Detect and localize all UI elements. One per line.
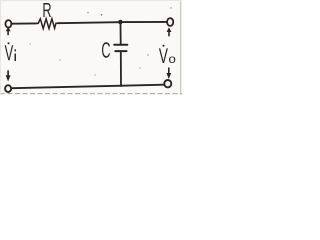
label C	[102, 42, 110, 58]
wire: junction node to output terminal	[123, 21, 168, 23]
input terminal top (open circle)	[5, 20, 11, 27]
output terminal top (open circle)	[167, 18, 173, 26]
Vi voltage arrow lower (head down)	[6, 70, 11, 81]
resistor R1 zigzag	[37, 19, 58, 29]
input terminal bottom (open circle)	[5, 85, 11, 92]
label Vi	[5, 42, 16, 61]
Vo voltage arrow upper (head up)	[167, 27, 172, 36]
wire: top-left terminal to resistor	[12, 22, 37, 24]
node junction dot	[118, 20, 123, 25]
capacitor C1 top plate	[114, 44, 127, 46]
wire: bottom rail	[11, 85, 164, 89]
scan speckles	[29, 7, 171, 75]
paper background	[0, 0, 182, 95]
capacitor C1 bottom lead	[120, 52, 122, 86]
Vi voltage arrow upper (head up)	[6, 27, 11, 35]
Vo voltage arrow lower (head down)	[166, 68, 171, 80]
label R	[43, 3, 51, 17]
capacitor C1 bottom plate	[115, 50, 126, 52]
label Vo	[159, 45, 175, 63]
output terminal bottom (open circle)	[164, 80, 171, 87]
wire: resistor to junction node	[58, 22, 119, 23]
capacitor C1 top lead	[120, 24, 122, 44]
